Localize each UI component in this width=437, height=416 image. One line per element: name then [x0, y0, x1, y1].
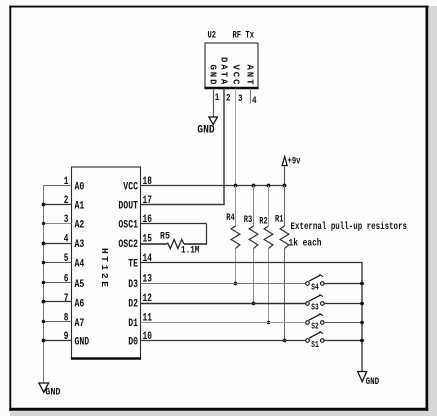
wire OSC2: R5 to U1 pin15: [141, 243, 167, 245]
wire VCC: U1 pin18 to pull-up rail: [141, 185, 285, 187]
svg-text:1.1M: 1.1M: [181, 245, 199, 257]
wire S2 to rail: [324, 322, 362, 324]
svg-text:3: 3: [64, 214, 69, 226]
resistor R3: [249, 186, 258, 304]
junction at A2: [42, 222, 45, 225]
wire U1 pin3 A2: [43, 223, 72, 225]
svg-text:HT12E: HT12E: [99, 248, 110, 290]
svg-text:A6: A6: [75, 299, 85, 311]
svg-text:ANT: ANT: [244, 65, 254, 87]
svg-text:9: 9: [64, 331, 69, 343]
wire OSC loop vertical segment: [206, 224, 208, 245]
RF transmitter module U2 box: [204, 43, 258, 88]
wire DOUT: U1 pin17 to DATA: [141, 204, 225, 206]
wire ANT stub U2 pin4: [250, 89, 252, 104]
svg-text:GND: GND: [207, 65, 217, 87]
wire U1 pin4 A3: [43, 243, 72, 245]
svg-text:R1: R1: [275, 214, 283, 226]
+9v power symbol: [282, 157, 287, 186]
wire S4 to rail: [324, 283, 362, 285]
junction VCC/R3: [252, 184, 256, 188]
switch S4: [306, 274, 324, 285]
svg-text:3: 3: [238, 93, 243, 105]
svg-text:S3: S3: [311, 302, 319, 313]
resistor R1: [280, 186, 289, 341]
svg-text:A2: A2: [75, 220, 85, 232]
svg-text:1k each: 1k each: [289, 238, 322, 250]
svg-text:OSC1: OSC1: [118, 220, 138, 232]
wire S1 to rail: [324, 340, 362, 342]
junction VCC/R4: [234, 184, 238, 188]
switch S2: [306, 313, 324, 324]
svg-text:D0: D0: [128, 337, 138, 349]
svg-text:DOUT: DOUT: [118, 201, 138, 213]
junction VCC/R2: [267, 184, 271, 188]
resistor R2: [264, 186, 273, 323]
svg-text:U2: U2: [208, 30, 217, 42]
junction at A5: [42, 281, 46, 285]
svg-text:16: 16: [143, 214, 152, 226]
junction S3/rail: [360, 302, 364, 306]
svg-text:GND: GND: [45, 387, 60, 399]
wire D2: U1 pin12 to switch S3: [141, 303, 306, 305]
svg-text:DATA: DATA: [218, 57, 228, 86]
junction R3/D2: [252, 302, 256, 306]
wire U1 pin5 A4: [43, 262, 72, 264]
svg-text:S4: S4: [311, 282, 319, 293]
svg-text:A1: A1: [75, 201, 85, 213]
switch S3: [306, 294, 324, 305]
wire TE: U1 pin14 to switch rail: [141, 263, 363, 372]
svg-text:2: 2: [226, 93, 231, 105]
svg-text:OSC2: OSC2: [118, 239, 138, 251]
svg-text:GND: GND: [75, 337, 90, 349]
wire U1 pin6 A5: [43, 282, 72, 284]
svg-text:18: 18: [143, 176, 153, 188]
svg-text:+9v: +9v: [288, 156, 301, 168]
svg-text:D1: D1: [128, 318, 138, 330]
svg-text:10: 10: [143, 331, 152, 343]
svg-text:S1: S1: [311, 339, 319, 350]
svg-text:5: 5: [64, 253, 69, 265]
junction S4/rail: [360, 282, 364, 286]
wire DATA: U2 pin2 down to DOUT: [223, 89, 225, 205]
switch S1: [306, 331, 324, 342]
wire U1 pin1 A0: [43, 185, 72, 187]
svg-text:S2: S2: [311, 321, 319, 332]
svg-text:A0: A0: [75, 182, 85, 194]
resistor R5 body: [166, 239, 184, 248]
svg-text:R4: R4: [226, 212, 234, 224]
wire U1 pin8 A7: [43, 321, 72, 323]
junction at GND pin: [42, 339, 46, 343]
encoder IC U1 HT12E box: [71, 167, 141, 359]
svg-text:External pull-up resistors: External pull-up resistors: [291, 221, 408, 233]
wire U1 pin2 A1: [43, 204, 72, 206]
svg-text:7: 7: [64, 293, 69, 305]
svg-text:GND: GND: [197, 125, 215, 137]
svg-text:VCC: VCC: [123, 182, 138, 194]
wire OSC1: U1 pin16 right segment: [141, 223, 207, 225]
svg-text:R3: R3: [244, 214, 252, 226]
svg-text:14: 14: [143, 253, 153, 265]
ground symbol at U2 pin1: [209, 117, 218, 125]
svg-text:RF Tx: RF Tx: [233, 30, 255, 42]
wire U1 pin9 GND: [43, 340, 72, 342]
svg-text:A4: A4: [75, 259, 85, 271]
junction at A7: [42, 320, 46, 324]
junction S2/rail: [360, 321, 364, 325]
wire U1 pin7 A6: [43, 301, 72, 303]
svg-text:R5: R5: [160, 231, 170, 243]
ground symbol (bottom left): [39, 383, 49, 392]
svg-text:A7: A7: [75, 318, 85, 330]
svg-text:2: 2: [64, 195, 69, 207]
junction at A4: [42, 261, 46, 265]
junction R2/D1: [267, 321, 271, 325]
svg-text:1: 1: [64, 176, 69, 188]
svg-text:A3: A3: [75, 239, 85, 251]
wire S3 to rail: [324, 303, 362, 305]
svg-text:1: 1: [215, 92, 220, 104]
wire D1: U1 pin11 to switch S2: [141, 322, 306, 324]
resistor R4: [231, 186, 240, 284]
ground symbol (bottom right): [358, 372, 367, 382]
wire D0: U1 pin10 to switch S1: [141, 340, 306, 342]
wire U2 pin1 to ground: [213, 89, 215, 118]
svg-text:R2: R2: [259, 216, 267, 228]
svg-text:VCC: VCC: [230, 65, 240, 87]
junction R1/D0: [283, 339, 287, 343]
svg-text:D3: D3: [128, 279, 138, 291]
address bus wire (left vertical): [43, 186, 45, 384]
junction S1/rail: [360, 339, 364, 343]
svg-text:4: 4: [252, 95, 257, 107]
junction at A6: [42, 300, 46, 304]
svg-text:6: 6: [64, 274, 69, 286]
svg-text:GND: GND: [366, 377, 380, 388]
junction R4/D3: [234, 282, 238, 286]
svg-text:TE: TE: [128, 259, 138, 271]
svg-text:A5: A5: [75, 279, 85, 291]
junction VCC/R1/+9v: [283, 184, 287, 188]
wire D3: U1 pin13 to switch S4: [141, 283, 306, 285]
junction at A1: [42, 203, 46, 207]
wire VCC: U2 pin3 down to +9v rail: [235, 89, 237, 186]
svg-text:D2: D2: [128, 299, 138, 311]
wire OSC2 right segment: [184, 243, 207, 245]
svg-text:8: 8: [64, 313, 69, 325]
junction at A3: [42, 242, 46, 246]
